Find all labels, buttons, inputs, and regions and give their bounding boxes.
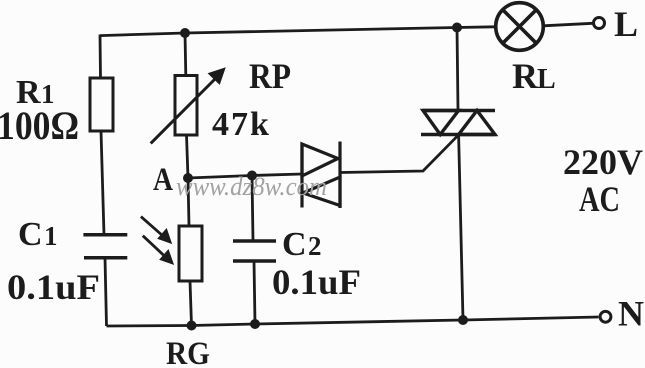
label R1 <box>16 74 55 111</box>
wire triac cathode down to bottom rail <box>459 135 463 321</box>
label C1 <box>18 216 58 253</box>
label 0.1uF (C1) <box>7 267 100 307</box>
label RG <box>166 336 210 368</box>
svg-text:220V: 220V <box>563 142 643 182</box>
svg-text:100Ω: 100Ω <box>0 103 79 148</box>
wire left branch vertical (top corner to R1) <box>99 35 102 79</box>
svg-text:N: N <box>618 294 644 334</box>
wire bottom rail <box>107 317 599 326</box>
capacitor C1 <box>83 235 127 258</box>
svg-text:C: C <box>282 226 307 263</box>
label N <box>618 294 644 334</box>
svg-text:www.dz8w.com: www.dz8w.com <box>176 172 327 201</box>
resistor R1 <box>90 78 113 131</box>
svg-text:RP: RP <box>249 56 291 96</box>
svg-text:1: 1 <box>44 221 58 251</box>
label A <box>153 162 173 198</box>
svg-text:0.1uF: 0.1uF <box>7 267 100 307</box>
terminal N circle <box>600 311 611 322</box>
wire RG bottom to bottom rail <box>190 281 192 326</box>
label RP <box>249 56 291 96</box>
wire C2 bottom to bottom rail <box>254 261 255 324</box>
potentiometer RP arrow <box>151 68 225 143</box>
wire triac anode up to top rail <box>457 28 458 111</box>
watermark www.dz8w.com <box>176 172 327 201</box>
wire C2 top stub <box>252 176 253 242</box>
svg-text:2: 2 <box>308 231 322 261</box>
wire top rail <box>100 27 495 36</box>
node A junction dot <box>183 173 193 183</box>
junction dot RG bottom <box>187 321 197 331</box>
junction dot top rail at RP <box>180 28 190 38</box>
potentiometer RP <box>175 76 197 136</box>
junction dot C2 bottom <box>250 319 260 329</box>
svg-text:R: R <box>512 56 539 96</box>
label 47k <box>212 106 271 143</box>
svg-text:L: L <box>614 4 638 44</box>
svg-text:A: A <box>153 162 173 198</box>
svg-text:0.1uF: 0.1uF <box>272 262 361 302</box>
photoresistor RG <box>179 226 202 281</box>
junction dot top rail at triac <box>452 23 462 33</box>
wire node A horizontal to diac <box>188 174 302 178</box>
svg-text:AC: AC <box>579 179 620 219</box>
capacitor C2 <box>233 241 276 261</box>
label AC <box>579 179 620 219</box>
svg-text:47k: 47k <box>212 106 271 143</box>
photoresistor RG light arrows <box>141 217 173 265</box>
wire RP bottom to node A <box>187 135 189 178</box>
svg-text:RG: RG <box>166 336 210 368</box>
wire RP top stub <box>184 33 188 76</box>
wire C1 bottom to bottom rail <box>105 258 107 326</box>
label 220V <box>563 142 643 182</box>
wire diac to gate <box>340 135 459 173</box>
label RL <box>512 56 556 96</box>
label 0.1uF (C2) <box>272 262 361 302</box>
triac VS <box>421 111 495 135</box>
wire lamp to L terminal <box>543 23 592 26</box>
svg-text:L: L <box>537 64 556 95</box>
label 100Ω <box>0 103 79 148</box>
label C2 <box>282 226 322 263</box>
terminal L circle <box>594 18 605 29</box>
svg-text:C: C <box>18 216 43 253</box>
wire R1 bottom to C1 <box>101 131 104 235</box>
label L <box>614 4 638 44</box>
wire node A down to RG <box>188 178 189 226</box>
junction dot bottom rail at triac <box>458 315 468 325</box>
lamp RL <box>496 3 544 51</box>
diac VD <box>302 142 340 209</box>
junction dot C2 top <box>247 171 257 181</box>
